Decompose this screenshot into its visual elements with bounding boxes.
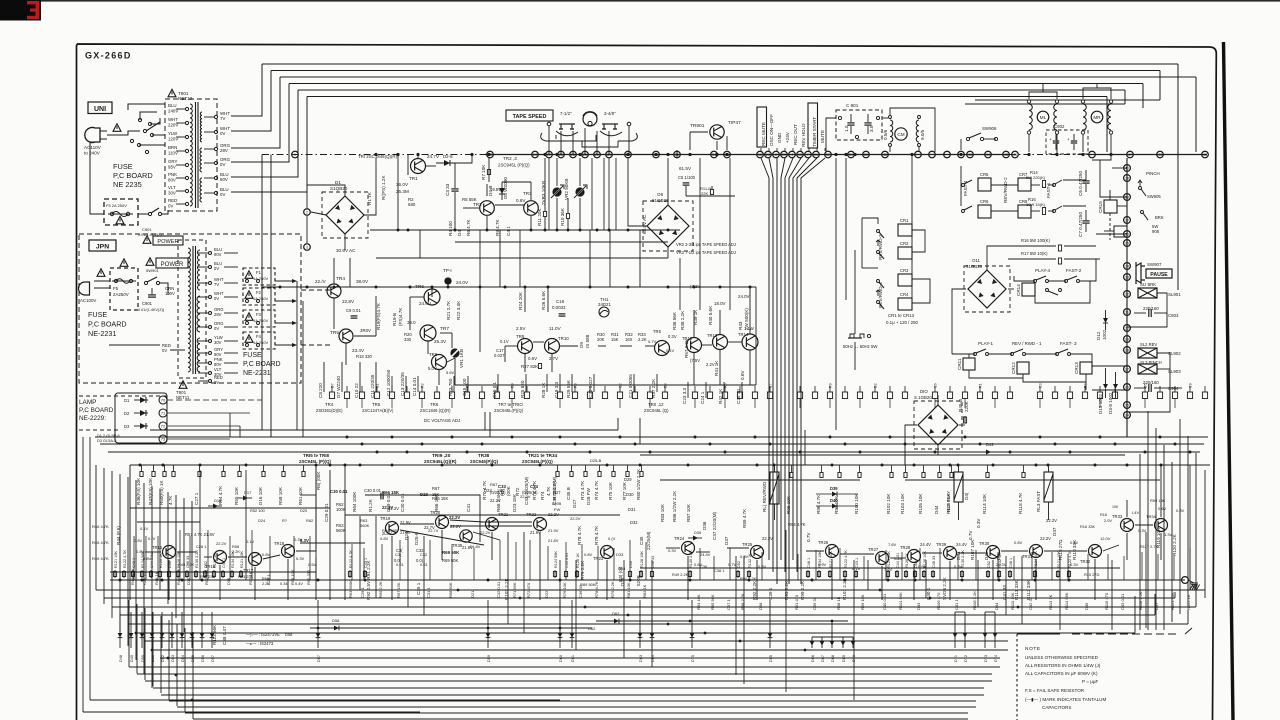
- svg-text:24.0V: 24.0V: [738, 294, 750, 299]
- svg-text:SW907: SW907: [1147, 262, 1162, 267]
- svg-text:CR15: CR15: [1098, 201, 1103, 213]
- svg-text:80V: 80V: [220, 177, 228, 182]
- svg-text:D3: D3: [664, 383, 668, 388]
- svg-text:0.5/6: 0.5/6: [883, 129, 888, 140]
- svg-text:POWER: POWER: [157, 239, 178, 245]
- svg-text:C10 22: C10 22: [354, 383, 359, 398]
- svg-text:24.4V: 24.4V: [920, 542, 931, 547]
- svg-text:D22: D22: [544, 590, 549, 598]
- svg-text:1A 250V: 1A 250V: [253, 318, 268, 323]
- svg-text:R134 10K: R134 10K: [231, 551, 235, 568]
- svg-text:R16 33K: R16 33K: [1080, 524, 1096, 529]
- bottom rail component ticks left cluster: [114, 570, 116, 578]
- vertical wires from connector row down: [346, 399, 348, 409]
- oscillator coil left: [890, 120, 893, 142]
- svg-text:R61 10K: R61 10K: [298, 486, 303, 505]
- svg-text:R11 20K: R11 20K: [537, 208, 542, 226]
- extra verticals amp left to bottom: [133, 536, 135, 580]
- svg-text:3: 3: [306, 246, 308, 250]
- svg-text:R132 1K: R132 1K: [213, 553, 217, 568]
- svg-text:TIP47: TIP47: [728, 120, 741, 126]
- amp mid rails: [345, 514, 620, 516]
- svg-text:C901: C901: [142, 227, 152, 232]
- label POWER JPN: [146, 258, 154, 266]
- svg-text:R71 56K: R71 56K: [512, 582, 517, 598]
- svg-text:R121 10K: R121 10K: [1170, 592, 1175, 610]
- transformer T901 dashed outline: [165, 99, 217, 211]
- svg-text:D37: D37: [724, 536, 729, 545]
- svg-text:0.7V: 0.7V: [728, 562, 737, 567]
- svg-text:4: 4: [791, 153, 793, 157]
- svg-text:CR12: CR12: [1011, 362, 1016, 374]
- svg-text:0.1V: 0.1V: [500, 339, 509, 344]
- svg-text:21: 21: [814, 153, 818, 157]
- svg-text:C14 0.01: C14 0.01: [412, 377, 417, 396]
- fuse box dashed UNI: [104, 199, 138, 225]
- svg-text:(—▮— ) MARK INDICATES TANTAL: (—▮— ) MARK INDICATES TANTALUM: [1025, 697, 1106, 702]
- svg-text:TR32: TR32: [1080, 559, 1091, 564]
- lamp board dashed separators: [79, 395, 168, 397]
- svg-text:R15 27Ω: R15 27Ω: [1084, 572, 1100, 577]
- svg-text:R58 10K: R58 10K: [278, 486, 283, 505]
- svg-text:D30: D30: [626, 492, 634, 497]
- transistor TR21: [486, 518, 499, 531]
- left bottom corner loops: [83, 711, 420, 713]
- svg-text:C31: C31: [466, 503, 471, 512]
- svg-text:NE 2235: NE 2235: [113, 180, 142, 189]
- transistor TR5: [339, 329, 353, 343]
- svg-text:D74: D74: [994, 655, 998, 662]
- svg-text:(00K: (00K: [506, 485, 511, 496]
- JPN transformer winding primary: [188, 248, 190, 372]
- svg-text:41: 41: [1013, 153, 1017, 157]
- JPN transformer core: [192, 246, 194, 374]
- transistor TR34: [1155, 519, 1168, 532]
- svg-text:C38 0.47: C38 0.47: [222, 626, 227, 645]
- svg-text:TR22: TR22: [526, 512, 537, 517]
- svg-text:R84 10K: R84 10K: [696, 594, 701, 610]
- svg-text:C 901: C 901: [846, 103, 859, 108]
- svg-text:22.2V: 22.2V: [450, 524, 461, 529]
- svg-text:R79 2.2K: R79 2.2K: [580, 560, 585, 580]
- wires amp left block: [145, 551, 161, 553]
- mid horizontal rails y430-452: [150, 429, 618, 431]
- loop wires SL902/903: [1127, 353, 1170, 412]
- svg-text:C44 0.01: C44 0.01: [565, 553, 569, 568]
- svg-text:7.6V: 7.6V: [884, 567, 893, 572]
- svg-text:47: 47: [1128, 153, 1132, 157]
- svg-text:C5 1/100: C5 1/100: [678, 175, 696, 180]
- wire plug to selector: [107, 131, 140, 135]
- svg-text:C6 0.47/250: C6 0.47/250: [1078, 171, 1083, 196]
- svg-text:24.4V: 24.4V: [956, 542, 967, 547]
- svg-text:R87 10K: R87 10K: [686, 503, 691, 522]
- svg-text:SW905: SW905: [1147, 194, 1161, 199]
- svg-text:TP-I: TP-I: [443, 268, 452, 273]
- svg-text:R119 10K: R119 10K: [1156, 527, 1161, 548]
- motor top feed wires: [1029, 92, 1057, 99]
- wire C901 top: [826, 118, 836, 152]
- wires D6 bridge: [667, 158, 669, 205]
- wires TR6 block: [431, 289, 433, 297]
- svg-text:C39 33: C39 33: [812, 596, 817, 610]
- svg-text:TR23: TR23: [593, 556, 604, 561]
- svg-text:560K: 560K: [336, 528, 346, 533]
- svg-text:2SC1846 (Q)(R): 2SC1846 (Q)(R): [420, 408, 451, 413]
- transistor TR30: [987, 546, 1000, 559]
- svg-text:+24V: +24V: [785, 131, 790, 143]
- block rail under TR2: [480, 229, 600, 231]
- bottom bus right bend to ground: [1174, 592, 1176, 598]
- svg-text:R36 56K: R36 56K: [672, 311, 677, 330]
- svg-text:TR20: TR20: [430, 510, 441, 515]
- svg-text:NE-2229:: NE-2229:: [79, 415, 106, 422]
- svg-text:0.8V: 0.8V: [380, 536, 389, 541]
- svg-text:0.8V: 0.8V: [1014, 540, 1023, 545]
- svg-text:R98 1K: R98 1K: [836, 596, 841, 610]
- svg-text:R26 5.6K: R26 5.6K: [541, 290, 546, 310]
- mid block lower rail: [455, 384, 756, 386]
- svg-text:0.3V: 0.3V: [668, 334, 677, 339]
- transistor TR4: [327, 284, 341, 298]
- svg-text:0.0(: 0.0(: [416, 558, 424, 563]
- transistor TR2: [480, 201, 495, 216]
- svg-text:R63 560K: R63 560K: [348, 580, 353, 598]
- transistor TR17: [249, 553, 262, 566]
- svg-text:TR14: TR14: [738, 332, 749, 337]
- svg-text:28: 28: [1125, 349, 1129, 353]
- svg-text:DIO: DIO: [920, 389, 928, 394]
- svg-text:0V: 0V: [168, 204, 173, 209]
- svg-text:D28 FW: D28 FW: [586, 487, 591, 505]
- svg-text:R2: R2: [421, 383, 425, 388]
- svg-text:O6: O6: [657, 192, 664, 197]
- svg-text:C48 1: C48 1: [807, 558, 811, 568]
- connector pin square row: [329, 392, 334, 399]
- left reel arc: [556, 131, 578, 136]
- relay CR3 box: [898, 274, 912, 286]
- svg-text:26: 26: [1125, 386, 1129, 390]
- wire down to CR cluster: [911, 155, 913, 226]
- svg-text:2.5V: 2.5V: [516, 326, 526, 331]
- svg-text:REC MUTE: REC MUTE: [761, 122, 766, 146]
- junction dots amp top rail: [139, 464, 142, 467]
- svg-text:32: 32: [1125, 293, 1129, 297]
- svg-text:C30 0.01: C30 0.01: [330, 489, 348, 494]
- svg-text:9.0/5: 9.0/5: [920, 129, 925, 140]
- svg-text:R99 10K: R99 10K: [860, 594, 865, 610]
- svg-text:TR26: TR26: [818, 540, 829, 545]
- svg-text:D67: D67: [821, 655, 825, 662]
- svg-text:D57: D57: [317, 655, 321, 662]
- svg-text:C48 1: C48 1: [222, 558, 226, 568]
- svg-text:R49 4.7K: R49 4.7K: [92, 556, 109, 561]
- JPN dashed enclosure: [79, 234, 301, 383]
- svg-text:2SC1247A(B)(V): 2SC1247A(B)(V): [362, 408, 394, 413]
- wire 50hz switch: [854, 250, 856, 334]
- transistor TR27: [876, 552, 889, 565]
- svg-text:50: 50: [864, 153, 868, 157]
- svg-text:D49: D49: [130, 655, 134, 662]
- loop wires SL901: [1127, 293, 1167, 327]
- top page edge line: [0, 0, 1280, 2]
- top bus left bend verticals: [261, 64, 263, 116]
- svg-text:TR13: TR13: [707, 333, 718, 338]
- svg-text:TIMER START: TIMER START: [812, 117, 817, 147]
- svg-text:D23: D23: [420, 492, 428, 497]
- svg-text:FUSE: FUSE: [88, 310, 107, 319]
- svg-text:R28 1K: R28 1K: [541, 382, 546, 398]
- transistor TR19: [386, 522, 399, 535]
- svg-text:D61: D61: [571, 655, 575, 662]
- svg-text:R75 10K: R75 10K: [608, 481, 613, 500]
- relay CR7 box: [1018, 178, 1031, 191]
- svg-text:LAMP: LAMP: [79, 399, 96, 406]
- svg-text:R73 4.7K: R73 4.7K: [532, 480, 537, 500]
- svg-text:D50: D50: [629, 561, 633, 568]
- svg-text:CR11: CR11: [957, 358, 962, 370]
- svg-text:D20: D20: [300, 508, 308, 513]
- svg-text:R100 10K: R100 10K: [854, 493, 859, 514]
- svg-text:C3: C3: [1039, 383, 1043, 388]
- svg-text:R16 5W 100(K): R16 5W 100(K): [1021, 238, 1050, 243]
- junction dots mid rail 287: [279, 286, 282, 289]
- right reel head symbols: [602, 123, 618, 125]
- svg-text:0.3V: 0.3V: [668, 548, 677, 553]
- svg-text:0.6V: 0.6V: [1158, 506, 1167, 511]
- svg-text:TR24: TR24: [674, 536, 685, 541]
- junction connectors row: [292, 151, 299, 158]
- svg-text:TR5: TR5: [372, 402, 381, 407]
- svg-text:R6( (00K: R6( (00K: [316, 471, 321, 490]
- svg-text:CR14: CR14: [1016, 284, 1021, 296]
- svg-text:22.2V: 22.2V: [216, 541, 227, 546]
- svg-text:R?: R?: [282, 518, 288, 523]
- svg-text:C8 220: C8 220: [318, 383, 323, 398]
- svg-text:C35 B: C35 B: [566, 487, 571, 500]
- svg-text:2SC945L(P)(Q): 2SC945L(P)(Q): [522, 459, 553, 464]
- svg-text:TR12: TR12: [682, 336, 693, 341]
- svg-text:11.0V: 11.0V: [549, 326, 562, 331]
- svg-text:0.01/(1.4KV(Z)): 0.01/(1.4KV(Z)): [138, 308, 165, 312]
- svg-text:D75: D75: [691, 655, 695, 662]
- svg-text:—▸— : IS2473: —▸— : IS2473: [246, 641, 274, 646]
- svg-text:24.7V: 24.7V: [427, 154, 440, 159]
- svg-text:24: 24: [533, 153, 537, 157]
- svg-text:ALL RESISTORS IN OHMS 1/4W: ALL RESISTORS IN OHMS 1/4W (J): [1025, 663, 1101, 668]
- svg-text:C48 1: C48 1: [1009, 558, 1013, 568]
- svg-text:TR21: TR21: [498, 512, 509, 517]
- svg-text:2SC945(P)(Q): 2SC945(P)(Q): [470, 459, 499, 464]
- svg-text:R10 36K: R10 36K: [560, 207, 565, 226]
- transistor TR20: [436, 516, 449, 529]
- svg-text:R74: R74: [540, 491, 545, 500]
- svg-text:0.6V: 0.6V: [528, 356, 537, 361]
- svg-text:R94 4.7K: R94 4.7K: [788, 522, 806, 527]
- svg-text:D31: D31: [628, 507, 636, 512]
- svg-text:R16: R16: [1100, 512, 1107, 517]
- svg-text:D36: D36: [702, 521, 707, 530]
- svg-text:D16 10K: D16 10K: [258, 486, 263, 505]
- svg-text:D7: D7: [331, 383, 335, 388]
- svg-text:R110 10K: R110 10K: [1010, 592, 1015, 610]
- svg-text:D2-8: D2-8: [443, 154, 453, 159]
- svg-text:34: 34: [1125, 265, 1129, 269]
- wires TR12-14: [702, 344, 712, 346]
- AC plug UNI: [85, 128, 100, 143]
- svg-text:28V: 28V: [220, 148, 228, 153]
- svg-text:29: 29: [1125, 338, 1129, 342]
- svg-text:PLAY-1: PLAY-1: [978, 341, 994, 346]
- junction dots bottom rail: [119, 579, 122, 582]
- svg-text:AC110V: AC110V: [84, 145, 102, 150]
- svg-text:R5: R5: [724, 383, 728, 388]
- svg-text:0.9V: 0.9V: [818, 562, 827, 567]
- svg-text:D54: D54: [181, 655, 185, 662]
- svg-text:0.1V: 0.1V: [246, 539, 255, 544]
- svg-text:19.8V: 19.8V: [490, 187, 501, 192]
- svg-text:F4: F4: [256, 334, 262, 339]
- svg-text:D58: D58: [285, 632, 293, 637]
- mid rail under pots: [600, 229, 680, 231]
- svg-text:0.3V: 0.3V: [976, 518, 981, 528]
- svg-text:C37 22/20(M): C37 22/20(M): [712, 511, 717, 540]
- svg-text:CAPACITORS: CAPACITORS: [1042, 705, 1071, 710]
- svg-text:R6 4.7K: R6 4.7K: [466, 218, 471, 236]
- svg-text:GX-266D: GX-266D: [85, 51, 132, 61]
- svg-text:10K: 10K: [1112, 505, 1119, 509]
- svg-text:L4V: L4V: [1132, 510, 1139, 515]
- svg-text:0V: 0V: [214, 266, 219, 271]
- svg-text:D55: D55: [191, 655, 195, 662]
- svg-text:0.8V: 0.8V: [134, 538, 143, 543]
- svg-text:P = μμF: P = μμF: [1082, 679, 1099, 684]
- junction dots rail 230: [397, 229, 400, 232]
- svg-text:TR2 ,3: TR2 ,3: [503, 156, 517, 161]
- svg-text:D52: D52: [737, 561, 741, 568]
- voltage selector contacts: [138, 118, 141, 121]
- svg-text:R124 56K: R124 56K: [554, 551, 558, 568]
- transistor TR15: [163, 546, 176, 559]
- svg-text:21.9V: 21.9V: [400, 520, 411, 525]
- svg-text:10W 15(K): 10W 15(K): [1026, 202, 1046, 207]
- speed select cross wires: [560, 135, 596, 141]
- svg-text:D(9B: D(9B: [552, 501, 561, 506]
- svg-text:D64: D64: [651, 655, 655, 662]
- pause actuator symbol: [1136, 262, 1145, 284]
- svg-text:R67: R67: [432, 486, 440, 491]
- svg-text:2.0V: 2.0V: [1104, 518, 1112, 523]
- connector cluster vertical stubs: [760, 148, 762, 151]
- svg-text:R85 56K: R85 56K: [710, 594, 715, 610]
- svg-text:TR29: TR29: [936, 542, 947, 547]
- rail bends near x618: [617, 418, 619, 430]
- svg-text:3-4/8": 3-4/8": [604, 111, 616, 116]
- svg-text:D52: D52: [161, 655, 165, 662]
- svg-text:TR7: TR7: [440, 326, 449, 332]
- top bus right bend verticals: [1177, 64, 1179, 290]
- svg-text:CR5: CR5: [980, 172, 989, 177]
- svg-text:+: +: [1049, 137, 1052, 142]
- svg-text:R53 23K: R53 23K: [238, 574, 254, 579]
- svg-text:D18: D18: [214, 498, 222, 503]
- svg-text:90V: 90V: [214, 252, 222, 257]
- svg-text:R126 1K: R126 1K: [159, 553, 163, 568]
- right chain connector circles: [1124, 165, 1131, 172]
- speed switch wires: [541, 133, 560, 141]
- wires TR901: [690, 131, 708, 133]
- svg-text:6.3V: 6.3V: [300, 538, 309, 543]
- svg-text:POWER: POWER: [161, 262, 184, 268]
- transistor TR33: [1121, 519, 1134, 532]
- svg-text:PINCH: PINCH: [1146, 171, 1160, 176]
- svg-text:CR2: CR2: [900, 241, 909, 246]
- svg-text:38.0V: 38.0V: [356, 279, 369, 284]
- wires TR24 TR25: [666, 547, 680, 549]
- wires CR1-4: [911, 236, 913, 247]
- svg-text:R96 4.7K: R96 4.7K: [816, 494, 821, 514]
- label JPN: [89, 240, 116, 251]
- svg-text:D63: D63: [639, 655, 643, 662]
- amp right inner rails: [640, 567, 1120, 569]
- label PAUSE box: [1146, 269, 1172, 278]
- svg-text:C4 1: C4 1: [506, 226, 511, 236]
- svg-text:5.3V: 5.3V: [296, 556, 305, 561]
- transistor TR8: [432, 355, 447, 370]
- center block inner loop wires: [365, 495, 480, 542]
- svg-text:R79 4.7K: R79 4.7K: [594, 525, 599, 545]
- svg-text:R101 56K: R101 56K: [898, 592, 903, 610]
- transistor TR35: [460, 530, 472, 542]
- wires PLAY-1 row: [952, 353, 975, 355]
- svg-text:D35: D35: [694, 530, 701, 535]
- dashed link JPN to main: [301, 289, 332, 291]
- svg-text:R1: R1: [979, 383, 983, 388]
- svg-text:4.7K: 4.7K: [546, 486, 551, 496]
- transistor TR9: [518, 339, 533, 354]
- svg-text:7V: 7V: [214, 282, 219, 287]
- svg-text:TR27: TR27: [868, 547, 879, 552]
- svg-text:D27: D27: [553, 490, 561, 495]
- svg-text:F3: F3: [256, 312, 262, 317]
- svg-text:(FS)4.7K: (FS)4.7K: [398, 307, 403, 326]
- svg-text:24.6V: 24.6V: [419, 301, 432, 306]
- svg-text:0.7V: 0.7V: [806, 532, 811, 542]
- wires row to chain: [1092, 365, 1127, 367]
- svg-text:D5: D5: [1144, 383, 1148, 388]
- bottom bus right verticals: [1204, 470, 1206, 590]
- svg-text:15K: 15K: [432, 492, 440, 497]
- svg-text:51GB20: 51GB20: [966, 264, 983, 269]
- svg-text:TR38: TR38: [478, 453, 490, 458]
- svg-text:22.2V: 22.2V: [1046, 518, 1057, 523]
- svg-text:D29: D29: [624, 477, 632, 482]
- svg-text:C43 0.01: C43 0.01: [1120, 593, 1125, 610]
- wires CM cluster: [889, 116, 892, 119]
- svg-text:37: 37: [1125, 219, 1129, 223]
- svg-text:23: 23: [766, 153, 770, 157]
- svg-text:24: 24: [1125, 414, 1129, 418]
- svg-text:D3 GL5A-5: D3 GL5A-5: [97, 438, 116, 443]
- wire fuse to switch SW901: [138, 213, 148, 215]
- film frame black corner box: [0, 0, 41, 21]
- amp left inner rails: [110, 571, 316, 573]
- svg-text:2SC945L (Q): 2SC945L (Q): [644, 408, 669, 413]
- svg-text:15K: 15K: [611, 337, 619, 342]
- wires selector loop upper: [140, 112, 157, 120]
- svg-text:C32 0.01: C32 0.01: [496, 581, 501, 598]
- svg-text:TR18: TR18: [274, 541, 285, 546]
